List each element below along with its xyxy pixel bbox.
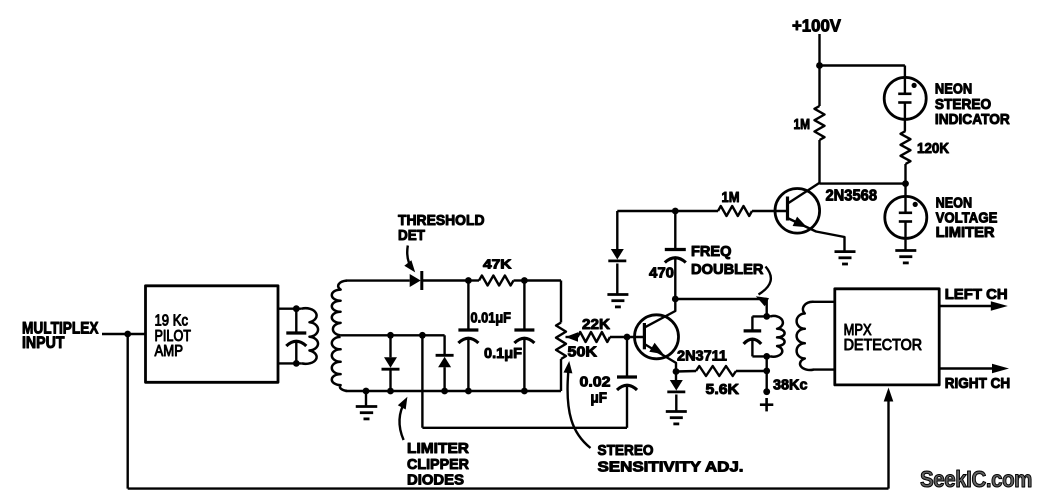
svg-text:50K: 50K [568, 344, 598, 361]
svg-text:FREQ: FREQ [691, 243, 732, 260]
svg-text:0.1μF: 0.1μF [484, 345, 522, 362]
svg-text:0.02: 0.02 [580, 374, 611, 391]
svg-text:+100V: +100V [792, 16, 841, 36]
svg-text:1M: 1M [722, 189, 740, 206]
svg-text:SeekIC.com: SeekIC.com [920, 466, 1032, 492]
svg-text:INPUT: INPUT [22, 334, 65, 352]
svg-text:120K: 120K [917, 140, 949, 157]
svg-text:47K: 47K [483, 257, 512, 272]
svg-text:AMP: AMP [155, 343, 184, 360]
svg-text:2N3711: 2N3711 [677, 348, 727, 365]
svg-text:SENSITIVITY ADJ.: SENSITIVITY ADJ. [598, 459, 744, 476]
svg-text:μF: μF [591, 390, 608, 407]
svg-text:5.6K: 5.6K [706, 381, 740, 398]
svg-text:LIMITER: LIMITER [936, 224, 995, 241]
svg-text:LEFT CH: LEFT CH [945, 286, 1008, 303]
svg-text:38Kc: 38Kc [773, 377, 808, 394]
svg-text:INDICATOR: INDICATOR [935, 111, 1010, 128]
svg-text:CLIPPER: CLIPPER [407, 456, 469, 473]
svg-text:DIODES: DIODES [407, 472, 464, 489]
svg-text:DET: DET [398, 227, 425, 244]
svg-text:STEREO: STEREO [598, 442, 654, 459]
svg-text:1M: 1M [794, 116, 811, 133]
svg-text:DETECTOR: DETECTOR [844, 337, 923, 354]
svg-text:DOUBLER: DOUBLER [691, 261, 764, 278]
svg-text:470: 470 [649, 265, 674, 282]
svg-text:RIGHT CH: RIGHT CH [945, 375, 1011, 392]
svg-text:0.01μF: 0.01μF [471, 310, 512, 327]
svg-text:22K: 22K [582, 316, 610, 333]
svg-text:2N3568: 2N3568 [826, 188, 878, 205]
svg-text:LIMITER: LIMITER [407, 440, 469, 457]
